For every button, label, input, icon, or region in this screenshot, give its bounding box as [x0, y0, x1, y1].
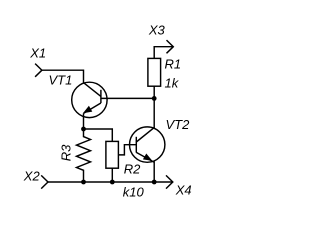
svg-text:X2: X2 [23, 168, 41, 183]
svg-text:R3: R3 [59, 144, 74, 161]
node E junction dot (VT2 emitter on bus) [152, 180, 157, 185]
svg-text:VT1: VT1 [49, 72, 73, 87]
wire R1 bottom through node B to VT2 collector [153, 86, 155, 128]
connector X3 arrow [167, 40, 174, 53]
wire VT2 emitter to bus [153, 162, 155, 183]
node A junction dot (VT1 emitter / R3 / R2 wire) [81, 127, 86, 132]
node D junction dot (R2 bottom on bus) [110, 180, 115, 185]
wire node A to R2 top [84, 129, 113, 141]
wire R2 bottom to bus [111, 168, 113, 182]
connector X2 arrow [41, 175, 48, 188]
connector X1 arrow [35, 64, 42, 77]
wire X1 to VT1 collector [42, 70, 84, 83]
transistor VT1 [72, 82, 107, 117]
resistor R3 zigzag [77, 129, 91, 182]
transistor VT2 [130, 127, 165, 162]
svg-text:R2: R2 [124, 161, 141, 176]
svg-text:X4: X4 [175, 182, 192, 197]
node C junction dot (R3 bottom on bus) [81, 180, 86, 185]
svg-text:X1: X1 [29, 45, 46, 60]
svg-text:VT2: VT2 [166, 117, 191, 132]
wire X3 to R1 top [154, 47, 173, 59]
svg-text:k10: k10 [123, 185, 145, 200]
wire VT1 base to R1 node [101, 97, 154, 99]
node B junction dot (R1 / VT1 base / VT2 collector) [152, 96, 157, 101]
wire VT2 base to R2 side tap [118, 145, 136, 155]
resistor R2 body [106, 141, 119, 168]
connector X4 arrow [166, 175, 173, 188]
resistor R1 body [148, 58, 161, 86]
svg-text:1k: 1k [165, 75, 180, 90]
svg-text:X3: X3 [148, 22, 166, 37]
svg-text:R1: R1 [165, 56, 182, 71]
bottom bus wire X2 to X4 [48, 181, 173, 183]
wire VT1 emitter down to node A [83, 113, 85, 129]
